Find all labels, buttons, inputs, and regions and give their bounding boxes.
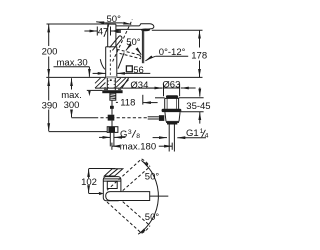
svg-text:8: 8 [136,133,140,140]
svg-text:56: 56 [133,65,144,76]
svg-text:3: 3 [128,129,132,136]
svg-text:178: 178 [191,50,207,61]
svg-text:118: 118 [120,97,135,108]
svg-text:G: G [120,129,127,140]
svg-text:Ø34: Ø34 [130,80,148,91]
svg-text:50°: 50° [107,14,122,25]
svg-text:200: 200 [42,47,58,58]
svg-text:max.180: max.180 [120,141,156,152]
svg-text:50°: 50° [145,212,160,223]
svg-text:50°: 50° [126,37,141,48]
svg-text:47: 47 [98,26,109,37]
svg-text:102: 102 [81,177,97,188]
svg-text:50°: 50° [145,172,160,183]
svg-text:max.30: max.30 [57,57,88,68]
svg-text:390: 390 [42,100,58,111]
svg-text:35-45: 35-45 [186,101,210,112]
svg-text:Ø63: Ø63 [162,80,180,91]
svg-text:4: 4 [205,133,209,140]
svg-text:0°-12°: 0°-12° [159,47,186,58]
svg-text:G1: G1 [186,128,199,139]
svg-text:300: 300 [64,100,80,111]
